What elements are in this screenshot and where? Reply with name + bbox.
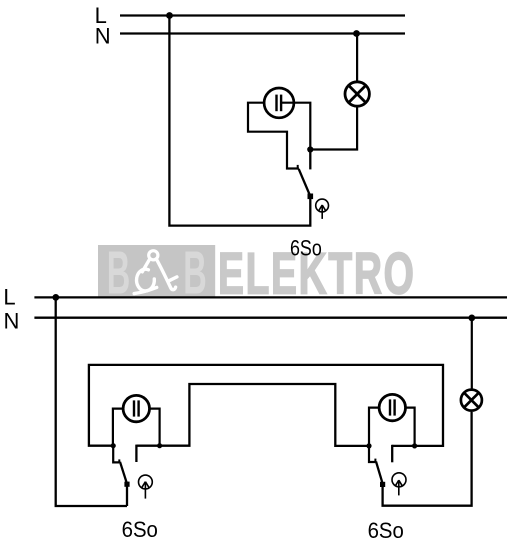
wire glow-lamp left lead path to pivot (top): [248, 103, 299, 169]
node right switch pivot: [366, 443, 371, 448]
switch S1 pivot nub: [118, 459, 120, 462]
switch blade top: [299, 169, 310, 195]
switch S1 square: [124, 482, 129, 487]
glow lamp E2 electrode bars: [133, 400, 135, 416]
glow lamp E1 electrode bars: [275, 95, 277, 112]
wire junction to lamp (top): [310, 107, 357, 150]
node on N line top: [353, 30, 360, 37]
svg-text:6So: 6So: [290, 235, 322, 260]
glow lamp E3 circle (right): [379, 394, 405, 420]
wire S1 square down: [126, 486, 128, 506]
wire open contact stub (right switch): [391, 445, 393, 463]
switch S1 pivot path (left): [113, 446, 119, 463]
glow lamp E2 circle (left): [123, 395, 149, 421]
svg-text:N: N: [95, 24, 111, 49]
wire N line top: [120, 32, 405, 34]
wire traveler 1 (upper bridge): [89, 365, 443, 446]
node switch/lamp junction (top): [307, 146, 313, 152]
svg-text:B: B: [107, 238, 131, 306]
wire S2 square down to lamp: [383, 412, 472, 506]
switch S2 pivot path (right): [369, 446, 375, 462]
wire open contact stub (top): [309, 150, 311, 170]
node on L line top: [166, 12, 173, 19]
actuator arrow symbol (top switch): [316, 199, 329, 219]
switch pivot nub top: [297, 165, 299, 169]
svg-text:N: N: [4, 309, 20, 334]
wire L line top: [120, 14, 405, 16]
switch Q top: moving-contact square: [308, 194, 314, 200]
glow lamp E2 leads (left): [113, 409, 135, 446]
actuator arrow symbol (left switch): [139, 475, 153, 499]
node left switch lamp-right: [157, 443, 162, 448]
wire N to lamp (top): [356, 34, 358, 82]
glow lamp E1 circle (top): [264, 88, 294, 118]
glow lamp E3 electrode bars: [389, 399, 391, 415]
node on L line bottom: [52, 294, 59, 301]
switch S2 blade: [376, 461, 382, 482]
node left switch pivot: [111, 443, 116, 448]
wire from L down, along bottom, up to switch square: [169, 16, 310, 226]
switch S2 pivot nub: [374, 459, 376, 462]
svg-text:6So: 6So: [368, 518, 404, 542]
svg-text:L: L: [3, 284, 15, 309]
lamp X2 (bottom): [461, 390, 482, 411]
lamp X1 (top): [345, 82, 369, 106]
node right switch lamp-right: [412, 443, 417, 448]
wire N line bottom: [34, 317, 507, 319]
node on N line bottom: [468, 315, 475, 322]
watermark logo box B&B: [98, 238, 215, 306]
wire open contact stub (left switch): [135, 445, 137, 462]
switch S2 square: [380, 482, 385, 487]
actuator arrow symbol (right switch): [392, 473, 406, 496]
wire N to lamp X2: [471, 318, 473, 390]
switch S1 blade: [120, 462, 127, 482]
svg-text:6So: 6So: [122, 517, 158, 542]
svg-text:B: B: [183, 238, 207, 306]
glow lamp E3 leads (right): [369, 408, 391, 446]
wire L feed down and bottom to left switch square: [56, 297, 127, 506]
wire glow-lamp right lead down to node (top): [281, 103, 311, 150]
wire L line bottom: [34, 296, 507, 298]
wire traveler 2 (lower bridge): [136, 384, 369, 446]
